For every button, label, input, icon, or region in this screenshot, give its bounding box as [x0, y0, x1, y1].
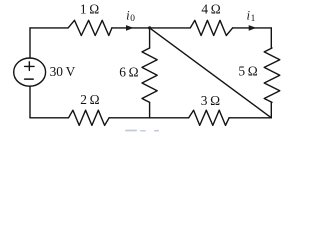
voltage source V1 30V [14, 58, 46, 86]
plus sign of source [25, 62, 34, 71]
svg-text:0: 0 [130, 14, 135, 24]
svg-text:3 Ω: 3 Ω [201, 93, 220, 108]
resistor 2ohm [69, 110, 110, 125]
node A junction dot [148, 26, 151, 29]
wire: 6ohm bottom lead [149, 102, 151, 117]
current arrow i0 [126, 25, 134, 31]
wire: bottom rail right segment [229, 117, 271, 119]
resistor 1ohm [68, 20, 112, 35]
svg-text:4 Ω: 4 Ω [201, 1, 220, 16]
resistor 4ohm [190, 20, 232, 35]
wire: 4ohm to top-right corner [233, 27, 272, 29]
current arrow i1 [249, 25, 257, 31]
resistor 5ohm [264, 48, 280, 102]
svg-text:6 Ω: 6 Ω [119, 64, 138, 79]
wire: right rail lower [270, 102, 272, 117]
svg-text:2 Ω: 2 Ω [80, 92, 99, 107]
resistor 6ohm [142, 48, 157, 102]
wire: right rail upper [270, 28, 272, 48]
svg-text:1: 1 [251, 14, 256, 24]
wire: bottom middle segment [109, 117, 189, 119]
wire: left rail lower [29, 86, 31, 118]
wire: node A to 4ohm [150, 27, 191, 29]
wire: bottom-left segment [30, 117, 69, 119]
wire: 1ohm to node A [112, 27, 150, 29]
cropped caption fragment [125, 130, 159, 132]
wire top-left: source to R 1ohm [30, 27, 68, 29]
svg-text:5 Ω: 5 Ω [238, 64, 257, 79]
wire: diagonal node A to bottom-right corner [150, 28, 272, 118]
svg-text:30 V: 30 V [50, 64, 76, 79]
resistor 3ohm [189, 110, 229, 125]
minus sign of source [25, 78, 34, 80]
wire: left rail upper [29, 28, 31, 58]
wire: 6ohm top lead / node A drop [149, 28, 151, 48]
svg-text:1 Ω: 1 Ω [80, 2, 99, 17]
